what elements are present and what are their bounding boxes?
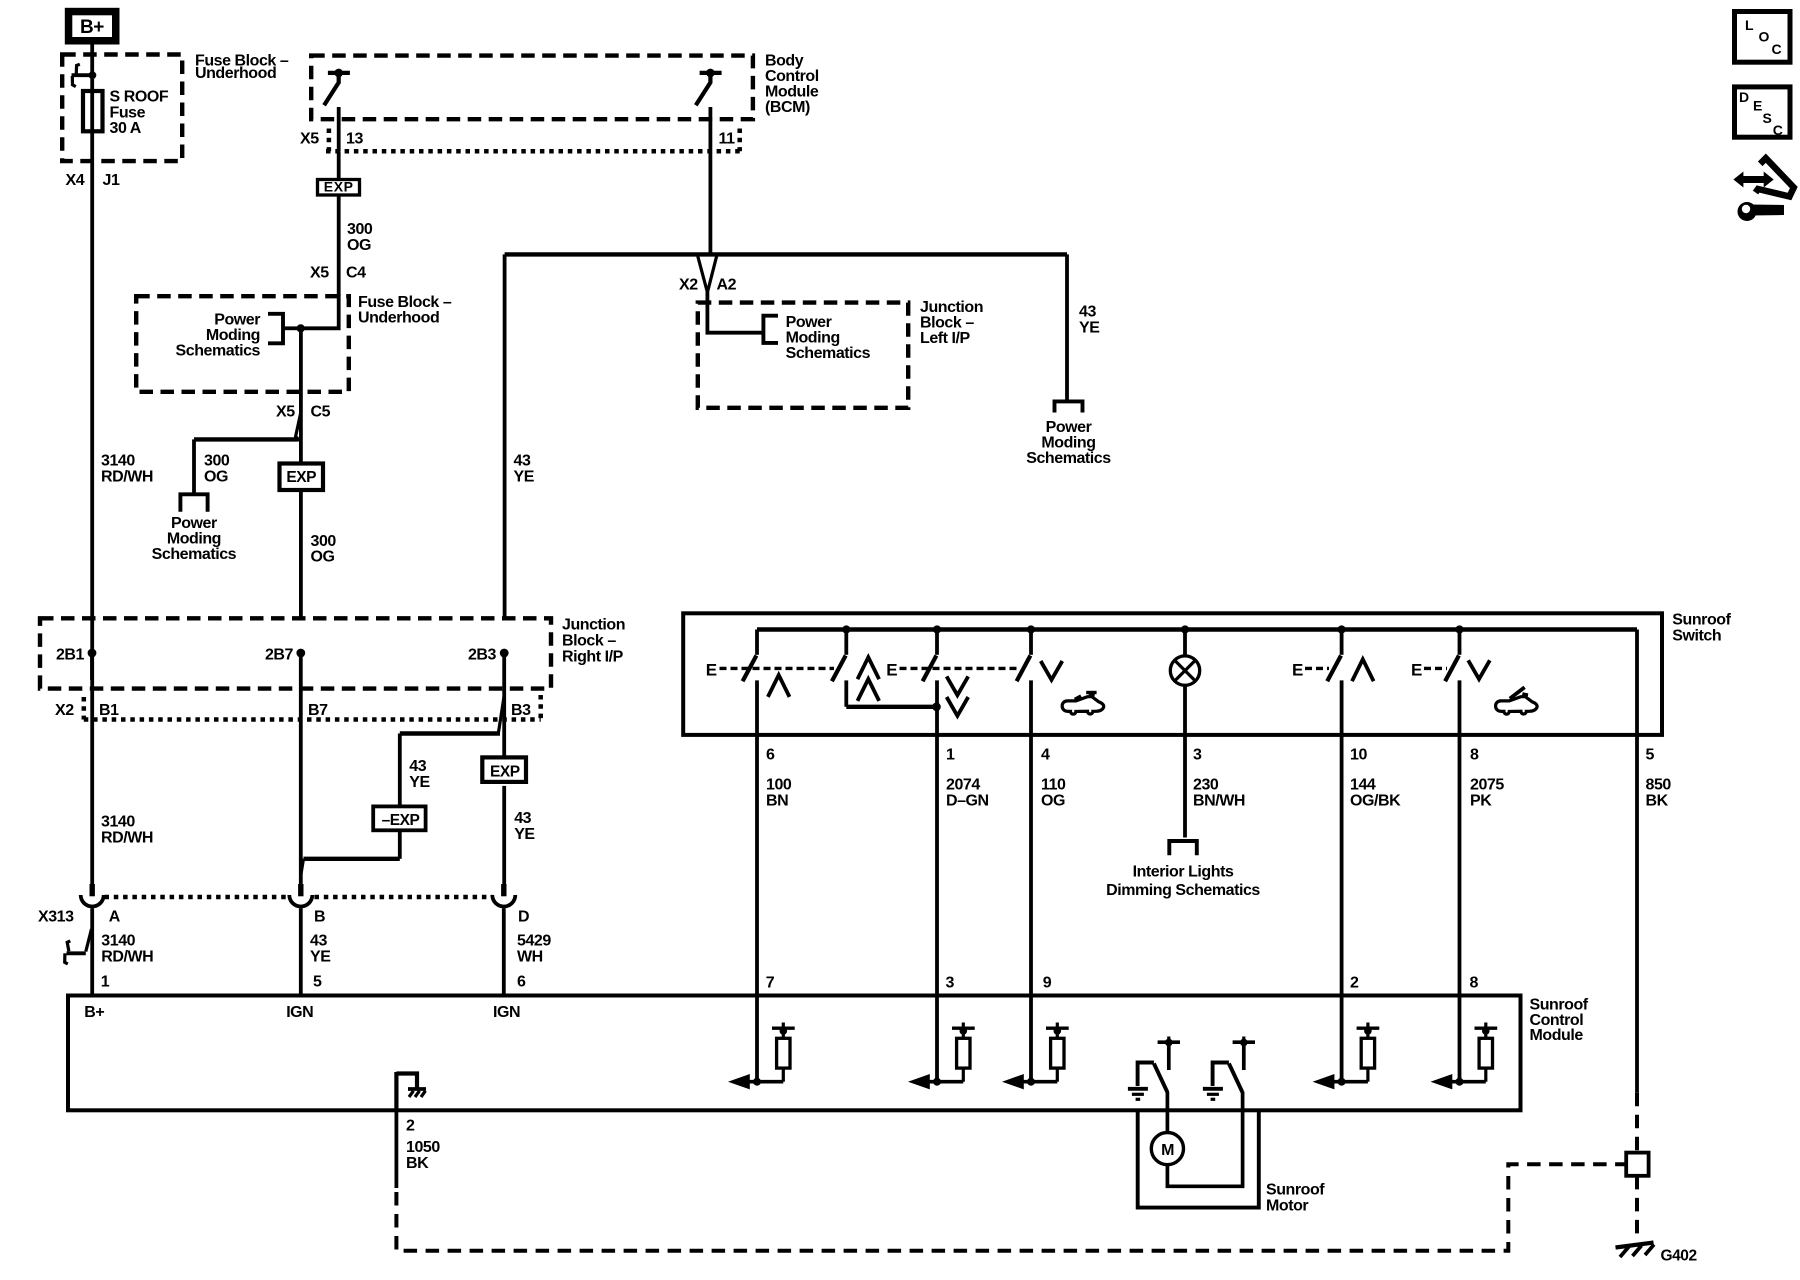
svg-text:M: M <box>1161 1142 1174 1159</box>
svg-text:Motor: Motor <box>1266 1197 1308 1214</box>
svg-text:2B3: 2B3 <box>468 646 497 663</box>
svg-text:300: 300 <box>311 533 337 550</box>
svg-text:3140: 3140 <box>101 814 135 831</box>
svg-text:A: A <box>109 909 121 926</box>
svg-text:Schematics: Schematics <box>176 342 261 359</box>
svg-text:RD/WH: RD/WH <box>101 468 153 485</box>
svg-text:B+: B+ <box>84 1004 104 1021</box>
svg-text:8: 8 <box>1470 747 1479 764</box>
svg-text:2: 2 <box>1350 975 1359 992</box>
svg-text:Body: Body <box>765 53 804 70</box>
svg-text:6: 6 <box>766 747 775 764</box>
svg-text:BK: BK <box>406 1155 429 1172</box>
svg-text:BK: BK <box>1646 792 1669 809</box>
svg-text:5: 5 <box>313 974 322 991</box>
svg-text:144: 144 <box>1350 777 1376 794</box>
svg-text:B3: B3 <box>511 702 531 719</box>
svg-text:OG: OG <box>347 237 371 254</box>
svg-text:E: E <box>886 660 897 679</box>
svg-text:E: E <box>1753 98 1762 114</box>
svg-text:YE: YE <box>514 468 535 485</box>
svg-text:G402: G402 <box>1661 1247 1697 1264</box>
svg-text:Interior Lights: Interior Lights <box>1133 863 1234 880</box>
svg-text:13: 13 <box>346 131 363 148</box>
svg-text:S: S <box>1763 110 1772 126</box>
svg-text:X4: X4 <box>66 172 85 189</box>
svg-text:RD/WH: RD/WH <box>101 948 153 965</box>
svg-text:Dimming Schematics: Dimming Schematics <box>1106 882 1260 899</box>
svg-text:L: L <box>1745 17 1754 33</box>
svg-text:2074: 2074 <box>946 777 980 794</box>
svg-text:2B1: 2B1 <box>56 646 85 663</box>
svg-text:43: 43 <box>514 810 531 827</box>
svg-text:–EXP: –EXP <box>382 812 420 829</box>
svg-text:Right I/P: Right I/P <box>562 649 624 666</box>
svg-text:B7: B7 <box>308 702 328 719</box>
svg-text:43: 43 <box>409 758 426 775</box>
svg-text:Sunroof: Sunroof <box>1672 612 1731 629</box>
svg-text:2B7: 2B7 <box>265 646 294 663</box>
svg-text:C: C <box>1772 41 1782 57</box>
svg-text:B: B <box>314 909 325 926</box>
svg-text:Block –: Block – <box>920 314 974 331</box>
svg-text:D–GN: D–GN <box>946 792 989 809</box>
svg-text:110: 110 <box>1041 777 1066 794</box>
svg-text:Module: Module <box>1530 1027 1584 1044</box>
svg-text:Schematics: Schematics <box>152 546 237 563</box>
svg-text:C5: C5 <box>311 404 331 421</box>
svg-text:3140: 3140 <box>101 453 135 470</box>
svg-text:OG/BK: OG/BK <box>1350 792 1401 809</box>
svg-text:B1: B1 <box>99 702 119 719</box>
svg-text:C4: C4 <box>346 265 366 282</box>
svg-text:J1: J1 <box>103 172 120 189</box>
svg-text:Sunroof: Sunroof <box>1266 1181 1325 1198</box>
svg-text:X2: X2 <box>55 702 74 719</box>
svg-text:Module: Module <box>765 84 819 101</box>
svg-text:2: 2 <box>406 1118 415 1135</box>
svg-text:Moding: Moding <box>206 327 260 344</box>
svg-text:8: 8 <box>1470 975 1479 992</box>
svg-text:3140: 3140 <box>101 933 135 950</box>
svg-text:YE: YE <box>514 826 535 843</box>
svg-text:Switch: Switch <box>1672 627 1721 644</box>
svg-text:1: 1 <box>101 974 110 991</box>
svg-text:Power: Power <box>1046 419 1092 436</box>
svg-text:850: 850 <box>1646 777 1672 794</box>
svg-text:OG: OG <box>1041 792 1065 809</box>
svg-text:Control: Control <box>765 68 819 85</box>
svg-text:Junction: Junction <box>920 299 983 316</box>
svg-text:Moding: Moding <box>1041 435 1095 452</box>
svg-text:Left I/P: Left I/P <box>920 330 971 347</box>
svg-text:RD/WH: RD/WH <box>101 829 153 846</box>
svg-text:7: 7 <box>766 975 775 992</box>
svg-text:3: 3 <box>1193 747 1202 764</box>
svg-text:EXP: EXP <box>324 178 354 194</box>
svg-text:Moding: Moding <box>167 531 221 548</box>
svg-text:5: 5 <box>1646 747 1655 764</box>
svg-text:(BCM): (BCM) <box>765 99 810 116</box>
svg-text:E: E <box>706 660 717 679</box>
svg-text:EXP: EXP <box>490 764 520 781</box>
svg-text:YE: YE <box>310 948 331 965</box>
svg-text:30 A: 30 A <box>110 120 142 137</box>
svg-text:X5: X5 <box>300 131 319 148</box>
svg-text:5429: 5429 <box>517 933 551 950</box>
svg-text:E: E <box>1411 660 1422 679</box>
svg-text:1050: 1050 <box>406 1139 440 1156</box>
svg-text:X5: X5 <box>276 404 295 421</box>
svg-text:IGN: IGN <box>493 1004 520 1021</box>
svg-text:3: 3 <box>946 975 955 992</box>
svg-text:OG: OG <box>204 468 228 485</box>
svg-text:10: 10 <box>1350 747 1367 764</box>
svg-text:O: O <box>1759 29 1770 45</box>
svg-text:Fuse: Fuse <box>110 104 146 121</box>
svg-text:1: 1 <box>946 747 955 764</box>
svg-text:X5: X5 <box>310 265 329 282</box>
svg-text:Power: Power <box>214 311 260 328</box>
svg-text:Block –: Block – <box>562 633 616 650</box>
svg-text:2075: 2075 <box>1470 777 1504 794</box>
svg-text:A2: A2 <box>717 277 737 294</box>
svg-text:X313: X313 <box>38 909 74 926</box>
svg-text:43: 43 <box>310 933 327 950</box>
svg-text:WH: WH <box>517 948 543 965</box>
svg-text:Schematics: Schematics <box>786 345 871 362</box>
svg-text:PK: PK <box>1470 792 1492 809</box>
svg-text:230: 230 <box>1193 777 1219 794</box>
svg-text:BN: BN <box>766 792 788 809</box>
svg-text:D: D <box>1739 89 1749 105</box>
svg-text:S ROOF: S ROOF <box>110 89 169 106</box>
svg-text:43: 43 <box>514 453 531 470</box>
svg-text:9: 9 <box>1043 975 1052 992</box>
svg-text:X2: X2 <box>679 277 698 294</box>
svg-text:Power: Power <box>171 515 217 532</box>
svg-text:Underhood: Underhood <box>195 65 276 82</box>
svg-text:IGN: IGN <box>286 1004 313 1021</box>
svg-text:Underhood: Underhood <box>358 310 439 327</box>
svg-text:C: C <box>1773 122 1783 138</box>
svg-text:OG: OG <box>311 549 335 566</box>
svg-text:YE: YE <box>1079 319 1100 336</box>
svg-text:BN/WH: BN/WH <box>1193 792 1245 809</box>
svg-text:300: 300 <box>347 221 373 238</box>
svg-text:Schematics: Schematics <box>1026 450 1111 467</box>
svg-text:100: 100 <box>766 777 792 794</box>
svg-text:YE: YE <box>409 774 430 791</box>
svg-text:D: D <box>518 909 529 926</box>
svg-text:300: 300 <box>204 453 230 470</box>
svg-text:4: 4 <box>1041 747 1050 764</box>
svg-text:6: 6 <box>517 974 526 991</box>
svg-text:EXP: EXP <box>286 469 316 486</box>
svg-text:B+: B+ <box>80 17 104 38</box>
svg-text:E: E <box>1292 660 1303 679</box>
svg-text:11: 11 <box>719 131 736 148</box>
svg-text:Junction: Junction <box>562 617 625 634</box>
svg-text:43: 43 <box>1079 304 1096 321</box>
